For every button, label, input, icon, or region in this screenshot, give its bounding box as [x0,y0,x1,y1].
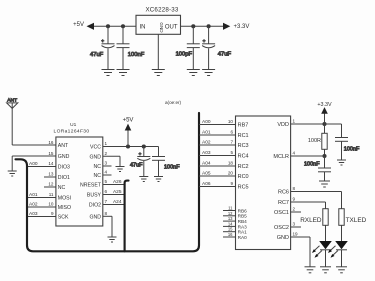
svg-text:47uF: 47uF [130,163,143,169]
svg-text:RB6: RB6 [238,208,248,213]
wire net A03 to RC4 [199,150,236,156]
svg-text:MOSI: MOSI [58,196,71,202]
+3.3V power arrow (U2 supply) [317,102,332,124]
wire net A02 to RC3 [199,140,236,146]
ground (C3) [187,70,200,76]
svg-text:MISO: MISO [58,205,71,211]
svg-text:+: + [139,151,142,156]
wire pin9 net A03 [28,211,56,217]
svg-text:DIO3: DIO3 [58,165,70,171]
svg-text:2: 2 [105,151,108,156]
wire GND pin19 [291,232,310,267]
+5V power arrow (U1 supply) [123,117,134,146]
wire pin13 stub [44,172,56,178]
svg-text:RA1: RA1 [238,230,248,235]
svg-text:NRESET: NRESET [80,183,102,189]
svg-text:DIO2: DIO2 [89,203,101,209]
svg-text:3: 3 [105,161,108,166]
resistor R1 100R (MCLR pullup) [308,124,327,156]
node MCLR junction [322,154,326,158]
svg-text:3: 3 [293,222,296,227]
svg-text:2: 2 [293,207,296,212]
wire OSC2 stub pin3 [291,222,301,228]
svg-text:9: 9 [293,197,296,202]
bus: left A00-A03 down and along bottom to right bus [16,113,200,251]
node: IN rail junction 2 [121,24,125,28]
wire pin14 net A00 [28,161,56,167]
wire net A01 to RC1 [199,130,236,136]
regulator GND stem [157,34,159,69]
wire regulator OUT to +3.3V [181,25,224,27]
wire RA0 stub pin16 [223,232,236,237]
node: OUT rail junction 2 [207,24,211,28]
svg-text:15: 15 [228,227,233,232]
ground (C5) [139,177,148,182]
svg-text:100nF: 100nF [164,164,180,170]
ground (U1 pin2) [116,167,125,172]
svg-text:A01: A01 [202,130,211,136]
wire net A06 to RC5 [199,181,236,187]
svg-text:100nF: 100nF [344,146,360,152]
svg-text:+: + [203,40,206,45]
svg-text:GND: GND [58,154,70,160]
svg-text:15: 15 [48,151,54,156]
svg-text:13: 13 [228,216,233,221]
svg-text:10: 10 [48,202,54,207]
svg-text:7: 7 [230,140,233,145]
node: OUT rail junction 1 [191,24,195,28]
svg-text:11: 11 [228,206,233,211]
wire OSC1 stub pin2 [291,207,301,213]
capacitor C4 47uF (electrolytic, output) [202,26,231,69]
capacitor C2 100nF (input) [117,26,145,69]
resistor R3 TXLED [339,209,367,241]
wire pin12 stub [44,182,56,188]
svg-text:A04: A04 [202,161,211,167]
node: IN rail junction 1 [106,24,110,28]
wire RB5 stub pin12 [223,211,236,216]
svg-text:+5V: +5V [123,117,134,123]
svg-text:+3.3V: +3.3V [234,24,250,30]
wire pin6 net A25 [103,189,125,195]
wire pin10 net A02 [28,202,56,208]
ground (C1) [102,70,115,76]
wire RB6 stub pin11 [223,206,236,211]
+5V power arrow [73,22,94,30]
svg-text:A02: A02 [29,202,38,208]
wire +5V to regulator IN [94,25,136,27]
svg-text:A00: A00 [202,119,211,125]
wire RC6 pin8 to TX resistor [291,186,342,209]
svg-text:RC7: RC7 [278,200,289,206]
svg-text:A06: A06 [202,181,211,187]
svg-text:1: 1 [293,119,296,124]
svg-text:A03: A03 [202,150,211,156]
wire RA3 stub pin14 [223,221,236,226]
svg-text:SCK: SCK [58,215,69,221]
svg-text:47uF: 47uF [90,52,104,58]
svg-text:8: 8 [105,211,108,216]
ground (D1) [320,267,331,273]
svg-text:VDD: VDD [277,122,289,128]
svg-text:20: 20 [228,171,234,176]
svg-text:IN: IN [140,25,146,31]
svg-text:13: 13 [48,172,54,177]
svg-text:+: + [101,40,104,45]
wire pin8 GND [103,211,112,237]
bus: middle A24-A26 drop [125,181,129,252]
svg-text:5: 5 [230,150,233,155]
ground (U2 GND) [305,267,316,273]
svg-text:XC6228-33: XC6228-33 [145,7,178,14]
svg-text:OSC1: OSC1 [274,210,289,216]
svg-text:100pF: 100pF [176,52,193,58]
svg-text:RC5: RC5 [238,185,249,191]
svg-text:6: 6 [230,130,233,135]
capacitor C1 47uF (electrolytic, input) [90,26,115,69]
wire VDD pin1 [291,119,325,125]
svg-text:4: 4 [293,151,296,156]
wire RB4 stub pin13 [223,216,236,221]
svg-text:12: 12 [228,211,233,216]
svg-text:4: 4 [105,170,108,175]
svg-text:OUT: OUT [165,25,178,31]
antenna ANT [7,98,18,146]
wire pin11 net A01 [28,192,56,198]
svg-text:RC2: RC2 [238,164,249,170]
ground (C8) [337,160,346,165]
capacitor C3 100pF (output) [176,26,200,69]
node VCC junction (C5) [142,144,146,148]
svg-text:LORa1264F30: LORa1264F30 [54,129,90,135]
svg-text:A24: A24 [113,199,122,205]
svg-text:9: 9 [230,181,233,186]
svg-text:RC4: RC4 [238,154,249,160]
capacitor C9 100nF (MCLR) [304,156,331,181]
transistor U2 microcontroller box [236,116,291,250]
wire pin2 GND [103,151,120,167]
wire net A00 to RB7 [199,119,236,125]
wire VDD to C8 [325,124,342,138]
svg-text:18: 18 [228,161,234,166]
svg-text:100nF: 100nF [304,161,320,167]
pin 15 wire (GND) [12,151,56,171]
wire antenna to pin16 [12,144,56,146]
svg-text:RC3: RC3 [238,143,249,149]
node VDD junction [322,122,326,126]
svg-text:A05: A05 [202,171,211,177]
svg-text:GND: GND [277,235,289,241]
svg-text:VCC: VCC [90,145,101,151]
svg-text:+3.3V: +3.3V [317,102,332,108]
ground (C2) [117,70,130,76]
resistor R2 RXLED [300,209,328,241]
svg-text:TXLED: TXLED [346,217,367,224]
svg-text:NC: NC [94,173,102,179]
svg-text:+5V: +5V [73,22,84,28]
svg-text:A02: A02 [202,140,211,146]
svg-text:RC6: RC6 [278,190,289,196]
svg-text:RXLED: RXLED [300,217,322,224]
svg-text:9: 9 [51,211,54,216]
svg-text:5: 5 [105,179,108,184]
wire MCLR pin4 [291,151,325,157]
svg-text:8: 8 [293,186,296,191]
wire pin7 net A24 [103,199,125,205]
ground (C6) [154,177,163,182]
svg-text:RB4: RB4 [238,219,248,224]
ground (U1 pin8) [108,237,117,242]
svg-text:BUSY: BUSY [87,193,102,199]
svg-text:NC: NC [94,164,102,170]
svg-text:7: 7 [105,199,108,204]
wire RA1 stub pin15 [223,227,236,232]
ground (D2) [336,267,347,273]
svg-text:RB5: RB5 [238,214,248,219]
svg-text:A01: A01 [29,192,38,198]
svg-text:100R: 100R [308,138,321,144]
wire pin5 net A26 [103,179,125,185]
wire pin1 VCC rail [103,141,159,147]
wire pin3 stub [103,161,112,167]
ground (U1 pin15) [8,171,17,176]
svg-text:14: 14 [228,221,233,226]
svg-text:RC0: RC0 [238,174,249,180]
svg-text:A03: A03 [29,211,38,217]
LED D1 RX [312,241,332,267]
svg-text:a(oe:er): a(oe:er) [165,100,182,105]
svg-text:MCLR: MCLR [273,154,289,160]
svg-text:A00: A00 [29,161,38,167]
wire net A05 to RC0 [199,171,236,177]
svg-text:ANT: ANT [58,143,69,149]
svg-text:12: 12 [48,182,54,187]
svg-text:10: 10 [228,119,234,124]
op-amp U1 LORa1264F30 module box [54,122,103,226]
svg-text:RB7: RB7 [238,123,249,129]
wire pin4 stub [103,170,112,176]
capacitor C6 100nF (U1 supply) [152,147,180,177]
svg-text:6: 6 [105,189,108,194]
svg-text:A26: A26 [113,179,122,185]
LED D2 TX [328,241,348,267]
svg-text:47uF: 47uF [218,52,232,58]
svg-text:RA3: RA3 [238,224,248,229]
svg-text:GND: GND [89,154,101,160]
svg-text:DIO1: DIO1 [58,175,70,181]
svg-text:GND: GND [89,214,101,220]
svg-text:OSC2: OSC2 [274,225,289,231]
node VCC junction (+5V stem) [126,144,130,148]
capacitor C8 100nF (U2 supply) [335,138,360,161]
ground (C9) [319,181,330,187]
wire net A04 to RC2 [199,161,236,167]
ground (C4) [202,70,215,76]
svg-text:A25: A25 [113,189,122,195]
svg-text:GND: GND [159,22,164,33]
svg-text:100nF: 100nF [128,52,145,58]
svg-text:1: 1 [105,141,108,146]
regulator U3 XC6228-33 [136,7,181,35]
svg-text:14: 14 [48,161,54,166]
svg-text:NC: NC [58,185,66,191]
wire RC7 pin9 to RX resistor [291,197,326,209]
svg-text:RA0: RA0 [238,235,248,240]
+3.3V power arrow [223,23,249,30]
ground (regulator) [152,70,165,76]
svg-text:11: 11 [49,192,54,197]
svg-text:19: 19 [293,232,299,237]
svg-text:16: 16 [228,232,233,237]
svg-text:U1: U1 [70,122,76,128]
svg-text:16: 16 [48,140,54,145]
svg-text:RC1: RC1 [238,133,249,139]
capacitor C5 47uF (electrolytic, U1 supply) [130,147,150,177]
